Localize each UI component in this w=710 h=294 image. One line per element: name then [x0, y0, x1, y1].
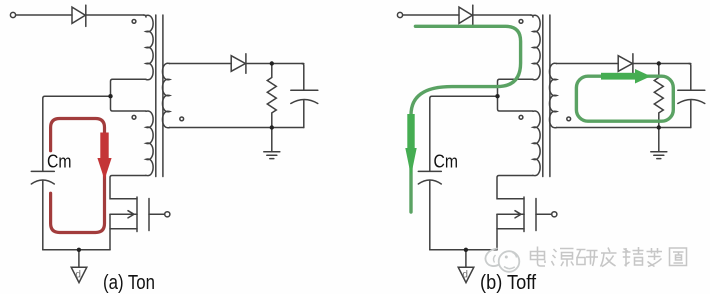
svg-text:(a) Ton: (a) Ton	[103, 272, 155, 294]
svg-text:Cm: Cm	[47, 150, 72, 171]
svg-text:(b) Toff: (b) Toff	[480, 272, 536, 294]
svg-text:Cm: Cm	[434, 150, 459, 171]
